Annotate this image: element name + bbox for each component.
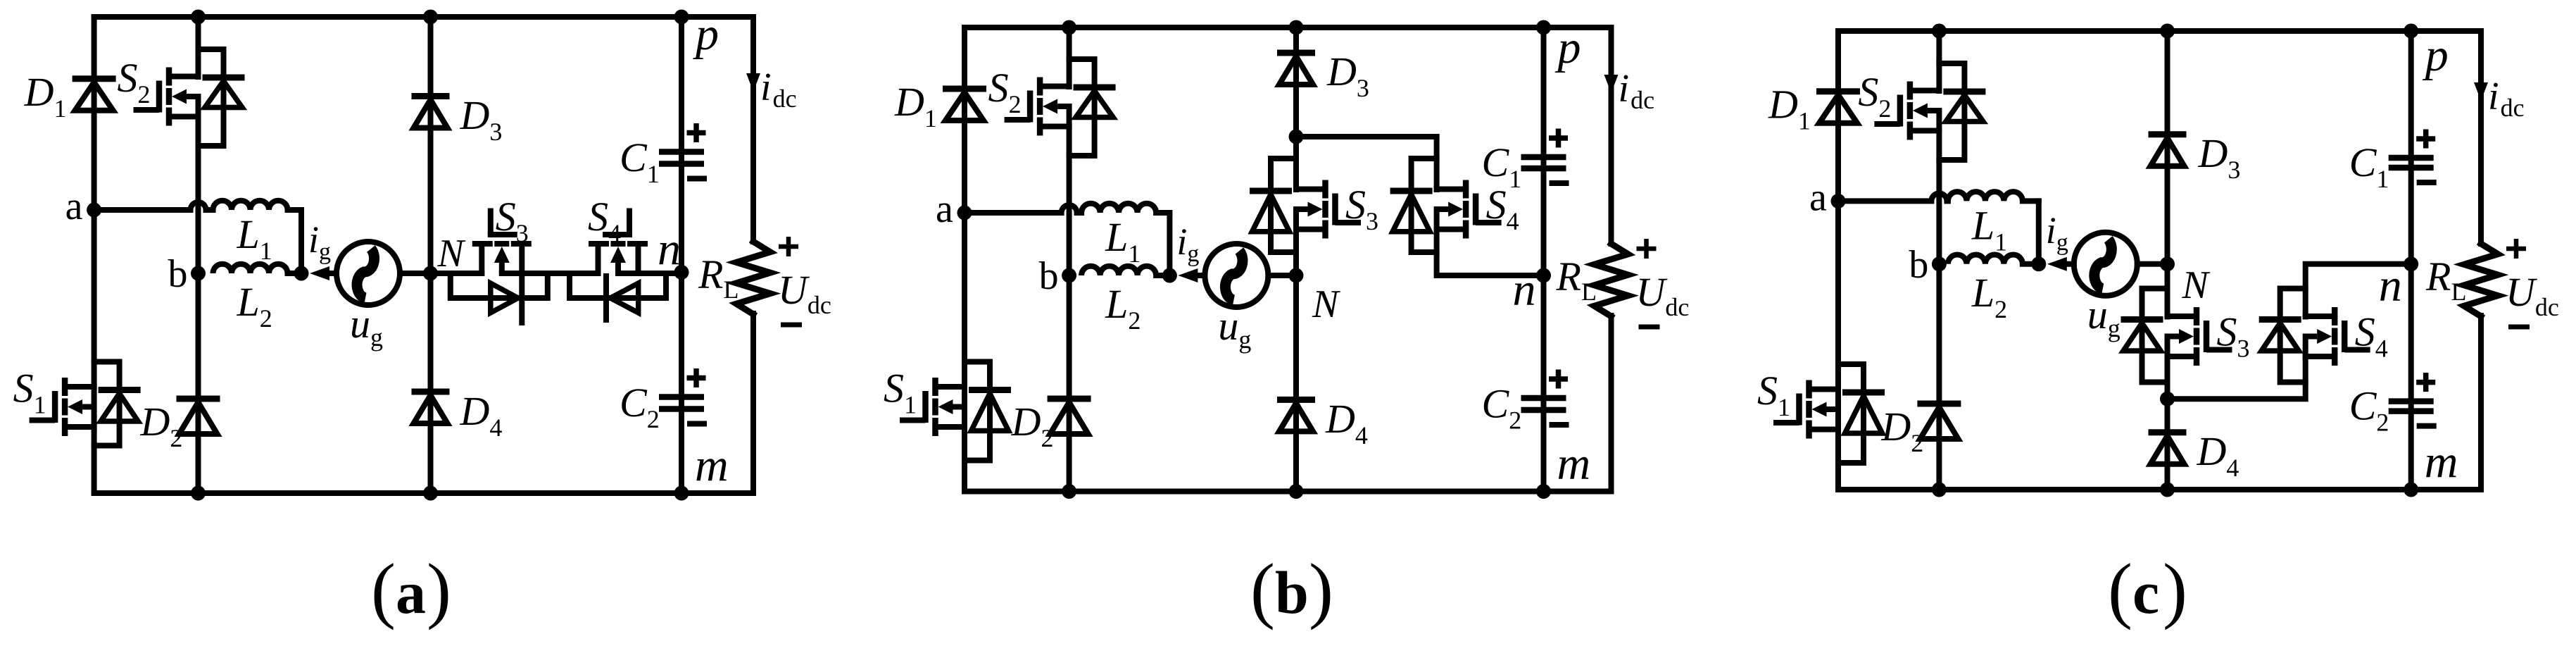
- transistor S4 [a] body diode: [610, 283, 639, 313]
- top rail junction at S2 leg [b]: [1062, 20, 1076, 35]
- wire L1 corner down to grid junction [b]: [1167, 213, 1172, 275]
- svg-text:L1: L1: [1971, 202, 2007, 256]
- wire hop to L1 [b]: [1077, 210, 1082, 216]
- resistor RL [b]: [1595, 244, 1628, 316]
- top dc rail [b]: [965, 25, 1611, 30]
- svg-text:): ): [1309, 548, 1333, 631]
- bottom rail junction at D4 leg [b]: [1289, 484, 1304, 499]
- svg-text:N: N: [1312, 282, 1340, 326]
- wire node a to L1 [b]: [965, 210, 1062, 216]
- transistor S3 [b] body-diode loop wire: [1271, 159, 1296, 252]
- wire S4 source corner to node n [b]: [1437, 209, 1544, 275]
- bottom dc rail [c]: [1838, 487, 2481, 492]
- svg-text:(: (: [2108, 548, 2132, 631]
- svg-text:): ): [2163, 548, 2187, 631]
- wire AC source to node N [c]: [2137, 261, 2168, 267]
- transistor S1 [a] source lead: [65, 424, 94, 430]
- svg-text:C2: C2: [1482, 381, 1522, 435]
- transistor S1 [a] body-diode loop wire: [94, 362, 120, 446]
- wire node a to L1 [a]: [94, 207, 191, 213]
- transistor S2 [b] body arrow: [1043, 99, 1069, 114]
- crossover hop of a-wire over S2 leg [a]: [191, 202, 206, 210]
- transistor S4 [c] channel bars: [2332, 307, 2338, 366]
- svg-text:N: N: [2182, 263, 2211, 307]
- S2/D2 leg vertical upper [c]: [1936, 31, 1942, 91]
- grid junction of L1/L2 [b]: [1162, 268, 1177, 283]
- svg-text:ug: ug: [1218, 303, 1251, 354]
- transistor S1 [c] body arrow: [1812, 402, 1839, 417]
- transistor S4 [a] body-diode loop wire: [570, 273, 666, 298]
- transistor S2 [b] body-diode loop wire: [1069, 59, 1095, 156]
- transistor S4 [a] gate: [603, 209, 632, 235]
- Udc minus polarity [a]: [781, 323, 802, 328]
- transistor S3 [c] channel bars: [2194, 307, 2200, 366]
- svg-text:D3: D3: [1326, 49, 1369, 102]
- transistor S1 [c] body-diode loop wire: [1838, 364, 1864, 463]
- diode D4 [a]: [412, 392, 450, 423]
- grid junction of L1/L2 [c]: [2031, 256, 2046, 271]
- node N junction [a]: [423, 266, 438, 281]
- svg-text:a: a: [936, 187, 953, 231]
- transistor S3 [b] body arrow: [1296, 202, 1323, 217]
- bottom rail junction at D2 leg [a]: [191, 486, 206, 501]
- transistor S3 [b] gate: [1336, 194, 1362, 225]
- C1 plus polarity [c]: [2416, 130, 2435, 149]
- node N junction [b]: [1289, 268, 1304, 283]
- svg-text:L2: L2: [237, 279, 272, 333]
- transistor S3 [a] body arrow: [494, 247, 510, 273]
- svg-text:L2: L2: [1971, 270, 2007, 323]
- transistor S2 [b] channel bars: [1037, 77, 1043, 136]
- node n junction [c]: [2404, 256, 2418, 271]
- svg-text:D4: D4: [1325, 396, 1368, 449]
- svg-text:S4: S4: [588, 194, 621, 247]
- transistor S1 [b] drain lead: [936, 384, 965, 390]
- AC source ug [a] sine glyph: [357, 249, 375, 298]
- node a junction [c]: [1831, 194, 1846, 209]
- wire L2 to grid junction [b]: [1156, 273, 1169, 278]
- node n junction [b]: [1536, 268, 1551, 283]
- inductor L2 [b]: [1081, 266, 1156, 275]
- C2 plus polarity [b]: [1549, 370, 1568, 389]
- svg-text:b: b: [168, 252, 188, 296]
- svg-text:Udc: Udc: [778, 267, 831, 319]
- svg-text:a: a: [65, 185, 83, 228]
- transistor S1 [c] gate: [1773, 394, 1799, 426]
- node b junction [a]: [191, 266, 206, 281]
- load leg vertical upper [b]: [1609, 27, 1614, 244]
- svg-text:ug: ug: [2087, 292, 2121, 342]
- branch junction below D3 [b]: [1289, 130, 1304, 144]
- transistor S2 [c] body-diode loop wire: [1939, 63, 1964, 160]
- transistor S1 [c] source lead: [1809, 427, 1839, 433]
- diode D2 [b]: [1048, 399, 1091, 434]
- wire L2 to grid junction [c]: [2023, 261, 2039, 267]
- svg-text:L2: L2: [1105, 281, 1141, 335]
- wire S4 source corner to S-junction [c]: [2168, 337, 2306, 399]
- diode D4 [c]: [2149, 433, 2187, 464]
- top rail junction at D3 leg [a]: [423, 10, 438, 25]
- caption (b): [1250, 548, 1333, 631]
- wire AC source to node N [b]: [1268, 273, 1296, 278]
- transistor S2 [b] source lead: [1040, 124, 1069, 130]
- grid current arrow ig [b]: [1178, 268, 1198, 282]
- svg-text:b: b: [1039, 254, 1059, 298]
- svg-text:idc: idc: [2488, 75, 2525, 122]
- svg-text:): ): [427, 548, 451, 631]
- S2/D2 leg vertical lower [c]: [1936, 111, 1942, 490]
- caption (a): [371, 548, 451, 631]
- inductor L1 [a]: [213, 201, 288, 210]
- capacitor C2 [b]: [1521, 398, 1566, 410]
- C2 plus polarity [a]: [687, 368, 706, 387]
- D3 leg vertical upper [c]: [2165, 31, 2170, 264]
- bottom rail junction m [c]: [2404, 483, 2418, 497]
- svg-text:D1: D1: [894, 79, 937, 132]
- svg-text:S1: S1: [13, 366, 46, 419]
- load leg vertical upper [c]: [2478, 31, 2484, 244]
- S2/D2 leg vertical upper [a]: [196, 17, 201, 77]
- transistor S3 [a] drain lead: [479, 244, 484, 273]
- AC source ug [c]: [2074, 232, 2137, 296]
- top rail junction at S2 leg [a]: [191, 10, 206, 25]
- grid current arrow ig [a]: [310, 266, 329, 280]
- C1/C2 leg vertical [c]: [2408, 31, 2414, 490]
- top dc rail [c]: [1838, 28, 2481, 34]
- bottom dc rail [a]: [94, 490, 753, 496]
- svg-text:C1: C1: [620, 135, 660, 188]
- svg-text:S3: S3: [1345, 182, 1378, 235]
- svg-text:L1: L1: [237, 211, 272, 265]
- C1/C2 leg vertical [b]: [1541, 27, 1547, 492]
- diode D3 [c]: [2149, 135, 2187, 166]
- AC source ug [c] sine glyph: [2094, 240, 2112, 289]
- transistor S3 [a] channel bars: [472, 241, 532, 247]
- inductor L1 [c]: [1948, 192, 2023, 201]
- transistor S2 [a] source lead: [169, 114, 199, 120]
- node N junction [c]: [2160, 256, 2175, 271]
- svg-text:ug: ug: [350, 301, 383, 352]
- AC source ug [b] sine glyph: [1225, 251, 1243, 300]
- transistor S1 [c] drain lead: [1809, 387, 1839, 392]
- caption (c): [2108, 548, 2187, 631]
- transistor S1 [a] drain lead: [65, 384, 94, 390]
- C2 minus polarity [a]: [687, 421, 707, 427]
- svg-text:p: p: [1555, 22, 1581, 73]
- capacitor C2 [a]: [659, 397, 704, 409]
- svg-text:a: a: [1809, 175, 1827, 219]
- svg-text:p: p: [2423, 30, 2449, 81]
- transistor S4 [a] body arrow: [610, 247, 626, 273]
- transistor S1 [b] body arrow: [938, 399, 965, 414]
- wire branch junction to S3 drain [b]: [1293, 137, 1299, 190]
- transistor S4 [a] body-diode cathode bar: [603, 273, 609, 323]
- transistor S3 [b] channel bars: [1322, 180, 1328, 239]
- svg-text:Udc: Udc: [2506, 269, 2559, 321]
- left rail vertical (leg D1/S1) [a]: [92, 17, 97, 493]
- svg-text:idc: idc: [1619, 67, 1655, 114]
- wire S4 to node n [a]: [618, 271, 681, 276]
- svg-text:S3: S3: [2217, 309, 2250, 363]
- svg-text:RL: RL: [698, 251, 739, 304]
- svg-text:S1: S1: [884, 366, 917, 419]
- dc current arrow idc [b]: [1604, 75, 1619, 93]
- svg-text:D4: D4: [2197, 428, 2239, 482]
- svg-text:D3: D3: [460, 92, 503, 146]
- svg-text:(: (: [1250, 548, 1275, 631]
- load leg vertical lower [b]: [1609, 316, 1614, 492]
- transistor S3 [c] body-diode loop wire: [2142, 289, 2168, 383]
- capacitor C1 [b]: [1521, 157, 1566, 168]
- transistor S2 [a] drain lead: [169, 74, 199, 80]
- svg-text:p: p: [693, 8, 719, 60]
- top rail junction p [b]: [1536, 20, 1551, 35]
- transistor S3 [a] body-diode loop wire: [451, 273, 548, 298]
- transistor S3 [b] source lead: [1296, 227, 1326, 232]
- svg-text:a: a: [396, 559, 426, 626]
- svg-text:n: n: [1513, 264, 1536, 316]
- transistor S1 [b] source lead: [936, 424, 965, 430]
- wire S4 drain corner to node n [c]: [2306, 264, 2411, 317]
- transistor S2 [a] body diode: [203, 77, 245, 108]
- transistor S4 [b] body arrow: [1437, 202, 1464, 217]
- inductor L2 [c]: [1948, 255, 2023, 264]
- bottom rail junction at D4 leg [c]: [2160, 483, 2175, 497]
- C1 plus polarity [a]: [687, 123, 706, 142]
- load leg vertical lower [c]: [2478, 316, 2484, 490]
- svg-text:D2: D2: [140, 399, 183, 452]
- transistor S1 [a] gate: [30, 391, 56, 423]
- load leg vertical lower [a]: [750, 313, 756, 493]
- transistor S2 [c] drain lead: [1910, 88, 1940, 94]
- S2/D2 leg vertical upper [b]: [1067, 27, 1072, 87]
- AC source ug [a]: [337, 242, 400, 305]
- wire L1 to corner [b]: [1156, 210, 1169, 216]
- svg-text:b: b: [1275, 559, 1309, 626]
- svg-text:(: (: [371, 548, 396, 631]
- transistor S1 [a] body diode: [99, 390, 141, 422]
- node b junction [b]: [1062, 268, 1076, 283]
- wire node a to L1 [c]: [1838, 198, 1931, 204]
- top rail junction at S2 leg [c]: [1932, 24, 1947, 39]
- diode D1 [a]: [73, 79, 116, 111]
- transistor S2 [b] drain lead: [1040, 84, 1069, 89]
- wire S3 source to node N [b]: [1293, 209, 1299, 275]
- crossover hop of a-wire over S2 leg [b]: [1062, 205, 1077, 213]
- diode D3 [a]: [412, 97, 450, 128]
- transistor S2 [b] gate: [1005, 91, 1031, 123]
- bottom dc rail [b]: [965, 489, 1611, 495]
- wire arrow to source [a]: [329, 271, 337, 276]
- top rail junction p [a]: [674, 10, 689, 25]
- S2/D2 leg vertical lower [a]: [196, 97, 201, 493]
- svg-text:b: b: [1909, 243, 1928, 287]
- C2 minus polarity [b]: [1550, 422, 1569, 428]
- transistor S1 [b] channel bars: [932, 378, 938, 436]
- svg-text:S2: S2: [118, 55, 151, 108]
- svg-text:D1: D1: [24, 69, 67, 123]
- transistor S2 [c] channel bars: [1907, 82, 1914, 140]
- diode D4 [b]: [1277, 399, 1315, 431]
- svg-text:C2: C2: [620, 380, 660, 433]
- transistor S3 [c] body diode: [2121, 320, 2163, 352]
- svg-text:S2: S2: [1858, 69, 1891, 123]
- transistor S4 [c] body arrow: [2306, 329, 2332, 344]
- grid junction of L1/L2 [a]: [294, 266, 309, 281]
- capacitor C1 [c]: [2389, 158, 2434, 168]
- transistor S4 [b] drain lead: [1437, 187, 1466, 192]
- wire branch junction to S4 drain leg [b]: [1296, 134, 1437, 139]
- top dc rail [a]: [94, 14, 753, 20]
- Udc minus polarity [c]: [2508, 325, 2530, 330]
- transistor S2 [c] body diode: [1943, 92, 1985, 122]
- transistor S2 [b] body diode: [1074, 87, 1116, 118]
- svg-text:m: m: [695, 440, 729, 491]
- transistor S4 [c] source lead: [2306, 354, 2335, 359]
- transistor S1 [b] gate: [900, 391, 926, 423]
- bottom rail junction m [b]: [1536, 484, 1551, 499]
- svg-text:m: m: [1557, 438, 1591, 490]
- svg-text:L1: L1: [1105, 214, 1141, 268]
- node a junction [b]: [957, 206, 972, 220]
- capacitor C1 [a]: [659, 152, 704, 164]
- transistor S1 [b] body diode: [969, 390, 1011, 431]
- svg-text:RL: RL: [2425, 254, 2466, 306]
- Udc plus polarity [a]: [779, 237, 798, 256]
- svg-text:c: c: [2132, 559, 2159, 626]
- svg-text:n: n: [658, 224, 681, 275]
- crossover hop of a-wire over S2 leg [c]: [1931, 193, 1947, 201]
- transistor S1 [c] channel bars: [1806, 380, 1812, 439]
- C1 minus polarity [b]: [1550, 180, 1569, 186]
- wire S3 source to S-junction [c]: [2165, 337, 2170, 399]
- capacitor C2 [c]: [2389, 402, 2434, 411]
- transistor S2 [a] gate: [134, 81, 160, 113]
- diode D2 [a]: [177, 399, 220, 434]
- transistor S1 [a] body arrow: [68, 399, 94, 414]
- resistor RL [a]: [736, 242, 770, 314]
- transistor S2 [c] body arrow: [1913, 104, 1940, 118]
- transistor S4 [c] body diode: [2259, 320, 2301, 352]
- inductor L2 [a]: [213, 264, 288, 273]
- bottom rail junction at D2 leg [b]: [1062, 484, 1076, 499]
- C2 minus polarity [c]: [2417, 423, 2437, 429]
- svg-text:m: m: [2425, 436, 2458, 487]
- transistor S4 [a] source lead: [596, 244, 601, 273]
- wire L1 corner down to grid junction [c]: [2036, 201, 2042, 263]
- transistor S4 [b] body diode: [1390, 191, 1433, 232]
- svg-text:S2: S2: [988, 65, 1022, 118]
- diode D1 [c]: [1816, 92, 1860, 123]
- svg-text:D2: D2: [1011, 399, 1054, 452]
- top rail junction at D3 leg [c]: [2160, 24, 2175, 39]
- C1 plus polarity [b]: [1549, 129, 1568, 148]
- transistor S1 [a] channel bars: [62, 378, 68, 436]
- svg-text:D4: D4: [460, 388, 503, 442]
- C2 plus polarity [c]: [2416, 373, 2435, 392]
- wire node N to D4 [b]: [1293, 275, 1299, 492]
- transistor S1 [b] body-diode loop wire: [965, 362, 990, 461]
- top rail junction p [c]: [2404, 24, 2418, 39]
- Udc plus polarity [c]: [2506, 239, 2526, 259]
- bottom rail junction m [a]: [674, 486, 689, 501]
- svg-text:n: n: [2379, 260, 2402, 311]
- left rail vertical (leg D1/S1) [b]: [962, 27, 967, 492]
- svg-text:Udc: Udc: [1636, 269, 1690, 321]
- transistor S2 [c] source lead: [1910, 128, 1940, 134]
- transistor S2 [a] body-diode loop wire: [199, 49, 224, 146]
- transistor S3 [c] drain lead: [2168, 313, 2197, 319]
- svg-text:D3: D3: [2198, 130, 2241, 184]
- diode D1 [b]: [943, 89, 986, 120]
- transistor S4 [b] gate: [1476, 194, 1502, 225]
- svg-text:ig: ig: [2046, 209, 2068, 256]
- wire hop to L1 [c]: [1947, 198, 1948, 204]
- svg-text:C2: C2: [2349, 383, 2389, 437]
- grid current arrow ig [c]: [2047, 257, 2067, 271]
- transistor S2 [a] body arrow: [172, 89, 199, 104]
- transistor S3 [a] body diode: [491, 283, 518, 313]
- AC source ug [b]: [1205, 244, 1268, 307]
- bottom rail junction at D2 leg [c]: [1932, 483, 1947, 497]
- svg-text:S1: S1: [1757, 368, 1790, 421]
- svg-text:S3: S3: [496, 194, 529, 247]
- resistor RL [c]: [2464, 244, 2498, 316]
- svg-text:idc: idc: [760, 66, 797, 113]
- wire L1 to corner [a]: [288, 207, 302, 213]
- transistor S3 [b] drain lead: [1296, 187, 1326, 192]
- C1 minus polarity [c]: [2417, 180, 2437, 185]
- diode D3 [b]: [1277, 53, 1315, 85]
- transistor S3 [a] source lead / body-diode cathode bar: [519, 244, 524, 323]
- transistor S4 [a] channel bars: [589, 241, 648, 247]
- wire arrow to source [b]: [1198, 273, 1205, 278]
- transistor S4 [b] body-diode loop wire: [1412, 159, 1437, 252]
- left rail vertical (leg D1/S1) [c]: [1835, 31, 1841, 490]
- svg-text:C1: C1: [2349, 139, 2389, 193]
- S2/D2 leg vertical lower [b]: [1067, 106, 1072, 492]
- C1/C2 leg vertical [a]: [679, 17, 684, 493]
- wire S3 to S4 [a]: [502, 271, 598, 276]
- load leg vertical upper [a]: [750, 17, 756, 242]
- transistor S2 [c] gate: [1874, 95, 1900, 127]
- wire AC source to node N [a]: [400, 271, 431, 276]
- transistor S3 [c] body arrow: [2168, 329, 2194, 344]
- wire L1 to corner [c]: [2023, 198, 2039, 204]
- diode D2 [c]: [1917, 404, 1961, 439]
- wire node N to S3 drain [c]: [2165, 264, 2170, 317]
- top rail junction at D3 leg [b]: [1289, 20, 1304, 35]
- transistor S4 [c] gate: [2344, 321, 2370, 352]
- dc current arrow idc [c]: [2474, 82, 2488, 101]
- svg-text:ig: ig: [1176, 220, 1199, 267]
- wire L1 corner down to grid junction [a]: [299, 210, 304, 273]
- wire arrow to source [c]: [2067, 261, 2074, 267]
- node n junction [a]: [674, 265, 689, 280]
- transistor S3 [a] gate: [488, 209, 517, 235]
- svg-text:C1: C1: [1482, 139, 1522, 193]
- C1 minus polarity [a]: [687, 176, 707, 182]
- bottom rail junction at D4 leg [a]: [423, 486, 438, 501]
- node b junction [c]: [1932, 256, 1947, 271]
- D3/D4 leg vertical [a]: [428, 17, 434, 493]
- transistor S3 [b] body diode: [1250, 191, 1292, 232]
- transistor S1 [c] body diode: [1842, 392, 1885, 433]
- wire L2 to grid junction [a]: [288, 271, 302, 276]
- wire S4 drain leg vertical [b]: [1434, 137, 1440, 190]
- wire node N to S3 [a]: [431, 271, 482, 276]
- Udc minus polarity [b]: [1639, 325, 1660, 330]
